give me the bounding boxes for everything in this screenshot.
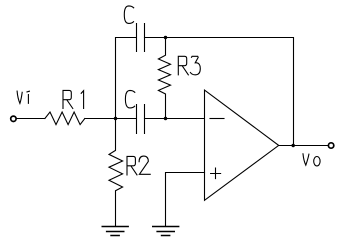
op-amp U1	[205, 90, 279, 200]
label C (middle)	[125, 90, 134, 108]
minus symbol	[210, 118, 224, 120]
label R1	[63, 90, 84, 108]
wire plus input to ground 2	[166, 173, 205, 227]
output terminal Vo	[328, 143, 333, 148]
label R3	[178, 56, 200, 75]
resistor R2	[109, 119, 123, 227]
wire node A up to C1	[116, 38, 137, 119]
capacitor C1	[137, 24, 145, 52]
feedback wire from node B to output node	[166, 38, 294, 146]
wire C1 to node B	[145, 37, 166, 39]
output node junction	[292, 144, 295, 147]
wire node A to C2	[116, 118, 137, 120]
plus symbol	[211, 168, 221, 179]
node C junction	[164, 117, 167, 120]
label C (top)	[124, 6, 133, 24]
input terminal Vi	[11, 116, 16, 121]
wire C2 to op-amp minus input	[145, 118, 205, 120]
node A junction	[114, 117, 117, 120]
ground 2 (below plus input)	[153, 227, 179, 236]
label Vi	[17, 91, 29, 103]
output wire	[279, 145, 328, 147]
capacitor C2	[137, 105, 145, 134]
node B junction	[164, 36, 167, 39]
wire R1 to node A	[85, 118, 116, 120]
wire input to R1	[17, 118, 45, 120]
ground 1 (below R2)	[102, 227, 128, 236]
label Vo	[303, 154, 309, 165]
resistor R1	[45, 112, 85, 125]
resistor R3	[158, 38, 170, 119]
label R2	[127, 156, 150, 175]
